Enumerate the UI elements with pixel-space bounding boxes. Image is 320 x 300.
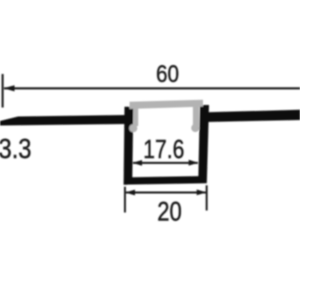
dimension line 60 bbox=[4, 87, 300, 89]
arrowhead right (20 dim) bbox=[197, 190, 207, 196]
arrowhead right (17.6 dim) bbox=[189, 160, 199, 166]
arrowhead left (60 dim) bbox=[4, 85, 15, 91]
diffuser right bead bbox=[191, 124, 199, 132]
extension line left (20 dim) bbox=[124, 187, 126, 213]
diffuser right leg bbox=[193, 106, 199, 126]
svg-text:60: 60 bbox=[156, 61, 179, 88]
dimension line 17.6 bbox=[133, 162, 198, 164]
diffuser cover top plate bbox=[130, 100, 204, 109]
svg-text:20: 20 bbox=[157, 196, 182, 226]
svg-text:17.6: 17.6 bbox=[143, 136, 184, 164]
svg-text:3.3: 3.3 bbox=[0, 133, 32, 164]
arrowhead left (20 dim) bbox=[125, 190, 135, 196]
profile channel body (U shape) bbox=[124, 105, 209, 185]
arrowhead left (17.6 dim) bbox=[132, 160, 142, 166]
extension line right (20 dim) bbox=[206, 185, 208, 210]
right flange bbox=[207, 110, 301, 122]
dimension line 20 bbox=[126, 192, 206, 194]
left flange bbox=[0, 115, 126, 126]
extension line left (60 dim) bbox=[2, 74, 4, 108]
diffuser left bead bbox=[129, 124, 137, 132]
diffuser left leg bbox=[133, 107, 138, 126]
